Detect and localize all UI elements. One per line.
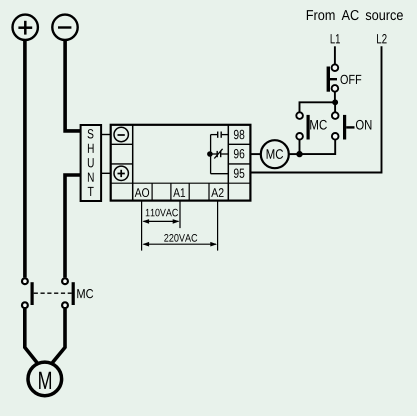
wire: SHUNT left bottom down to MC main contact right pole <box>65 175 81 277</box>
relay minus terminal circle <box>114 127 128 141</box>
label A1 <box>173 188 185 197</box>
dimension extension line below AO <box>141 201 143 251</box>
wire: ON bottom to coil junction <box>300 140 336 155</box>
pushbutton OFF (NC) <box>327 64 362 91</box>
junction dot below OFF <box>332 99 338 105</box>
motor M <box>28 362 62 396</box>
MC auxiliary contact (NO) <box>296 112 327 139</box>
pushbutton ON (NO) <box>332 112 371 139</box>
relay left terminal column line <box>132 125 134 201</box>
dimension extension line below A2 <box>217 201 219 251</box>
wire: MC coil to junction <box>289 153 300 155</box>
label 95 <box>234 169 244 178</box>
wire: + terminal down to MC main contact left pole <box>23 40 27 278</box>
MC main contact right pole <box>62 278 75 308</box>
text L2 <box>377 34 387 43</box>
MC main contact left pole <box>22 278 34 308</box>
wire: shunt right to relay plus terminal <box>101 172 111 174</box>
wire: shunt right to relay minus terminal <box>101 134 111 136</box>
dimension arrow 220VAC <box>142 234 217 246</box>
internal NC contact to 96 <box>211 149 229 159</box>
relay unit outer box <box>111 125 251 201</box>
MC main contact linkage (dashed) <box>34 292 72 294</box>
terminal - (DC negative) <box>52 15 77 40</box>
wire: junction left and down to MC aux contact <box>300 102 336 112</box>
relay bottom row cell dividers <box>151 183 153 200</box>
relay right terminal column line <box>227 125 229 201</box>
wire: 96 to MC coil <box>250 153 261 155</box>
dimension extension line below A1 <box>179 201 181 228</box>
wire: left contact to motor <box>25 309 37 363</box>
wire: 95 to L2 <box>250 46 381 172</box>
wire: MC aux bottom to coil junction <box>299 140 301 155</box>
internal contact common bus <box>210 135 212 174</box>
relay right column cell dividers <box>228 143 250 145</box>
label 98 <box>234 130 244 139</box>
label AO <box>135 188 149 197</box>
text From AC source <box>307 10 403 20</box>
wire: L1 down to OFF button <box>334 46 336 64</box>
terminal + (DC positive) <box>13 15 38 40</box>
wire: junction down to ON button <box>334 102 336 112</box>
junction dot on 96 lead <box>207 151 213 157</box>
MC coil <box>261 140 289 168</box>
internal NO contact to 98 <box>211 132 229 138</box>
relay bottom row line <box>111 182 251 184</box>
internal lead to 95 <box>211 173 229 175</box>
relay plus terminal circle <box>114 166 128 180</box>
wire: right contact to motor <box>52 309 65 363</box>
dimension arrow 110VAC <box>142 209 179 224</box>
shunt box <box>81 125 102 201</box>
junction dot at MC coil <box>296 151 302 157</box>
label A2 <box>211 188 223 197</box>
label MC main contact <box>77 289 93 298</box>
text L1 <box>331 34 340 43</box>
wire: - terminal down and right to SHUNT left top <box>65 40 81 131</box>
wire: OFF to junction dot <box>334 92 336 103</box>
relay left column cell dividers <box>111 143 133 145</box>
label 96 <box>234 149 244 158</box>
